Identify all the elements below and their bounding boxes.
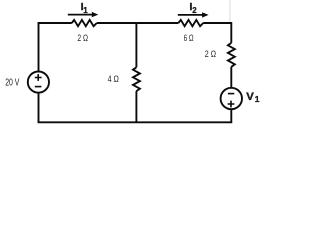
- faint ghost wire above top-right corner: [229, 0, 231, 22]
- wire: middle branch bottom segment: [135, 91, 137, 122]
- wire: middle junction to R2: [136, 22, 178, 24]
- svg-text:1: 1: [83, 6, 88, 15]
- svg-text:1: 1: [255, 94, 260, 104]
- minus sign of V1 source: [228, 93, 234, 95]
- resistor R1 2ohm horizontal zigzag: [72, 20, 97, 26]
- minus sign of 20V source: [35, 86, 42, 88]
- wire: R3 to V1 source top: [230, 67, 232, 88]
- resistor R4 4ohm vertical zigzag: [133, 67, 140, 91]
- wire: R2 to top-right corner, down to R3: [203, 23, 231, 43]
- svg-text:6 Ω: 6 Ω: [184, 33, 194, 43]
- svg-text:4 Ω: 4 Ω: [108, 74, 120, 84]
- svg-text:20 V: 20 V: [5, 78, 19, 89]
- svg-text:2 Ω: 2 Ω: [77, 33, 88, 43]
- svg-text:2 Ω: 2 Ω: [205, 49, 216, 59]
- wire: R1 to middle junction: [97, 22, 137, 24]
- wire: 20V source bottom to bottom rail: [38, 93, 40, 123]
- wire: V1 bottom to bottom rail: [230, 109, 232, 122]
- wire: middle branch top segment: [135, 23, 137, 67]
- wire: top-left from source up and right to R1: [39, 23, 72, 72]
- resistor R2 6ohm horizontal zigzag: [178, 20, 203, 26]
- source Vs 20V circle: [28, 72, 49, 93]
- current arrow I1: [68, 12, 209, 18]
- resistor R3 2ohm vertical zigzag: [228, 43, 235, 67]
- source V1 circle: [221, 88, 242, 109]
- svg-text:V: V: [246, 91, 254, 103]
- wire: bottom rail: [38, 121, 233, 123]
- current arrow I2: [178, 14, 204, 16]
- plus sign of V1 source: [228, 101, 235, 108]
- svg-text:2: 2: [192, 6, 197, 15]
- plus sign of 20V source: [35, 74, 235, 107]
